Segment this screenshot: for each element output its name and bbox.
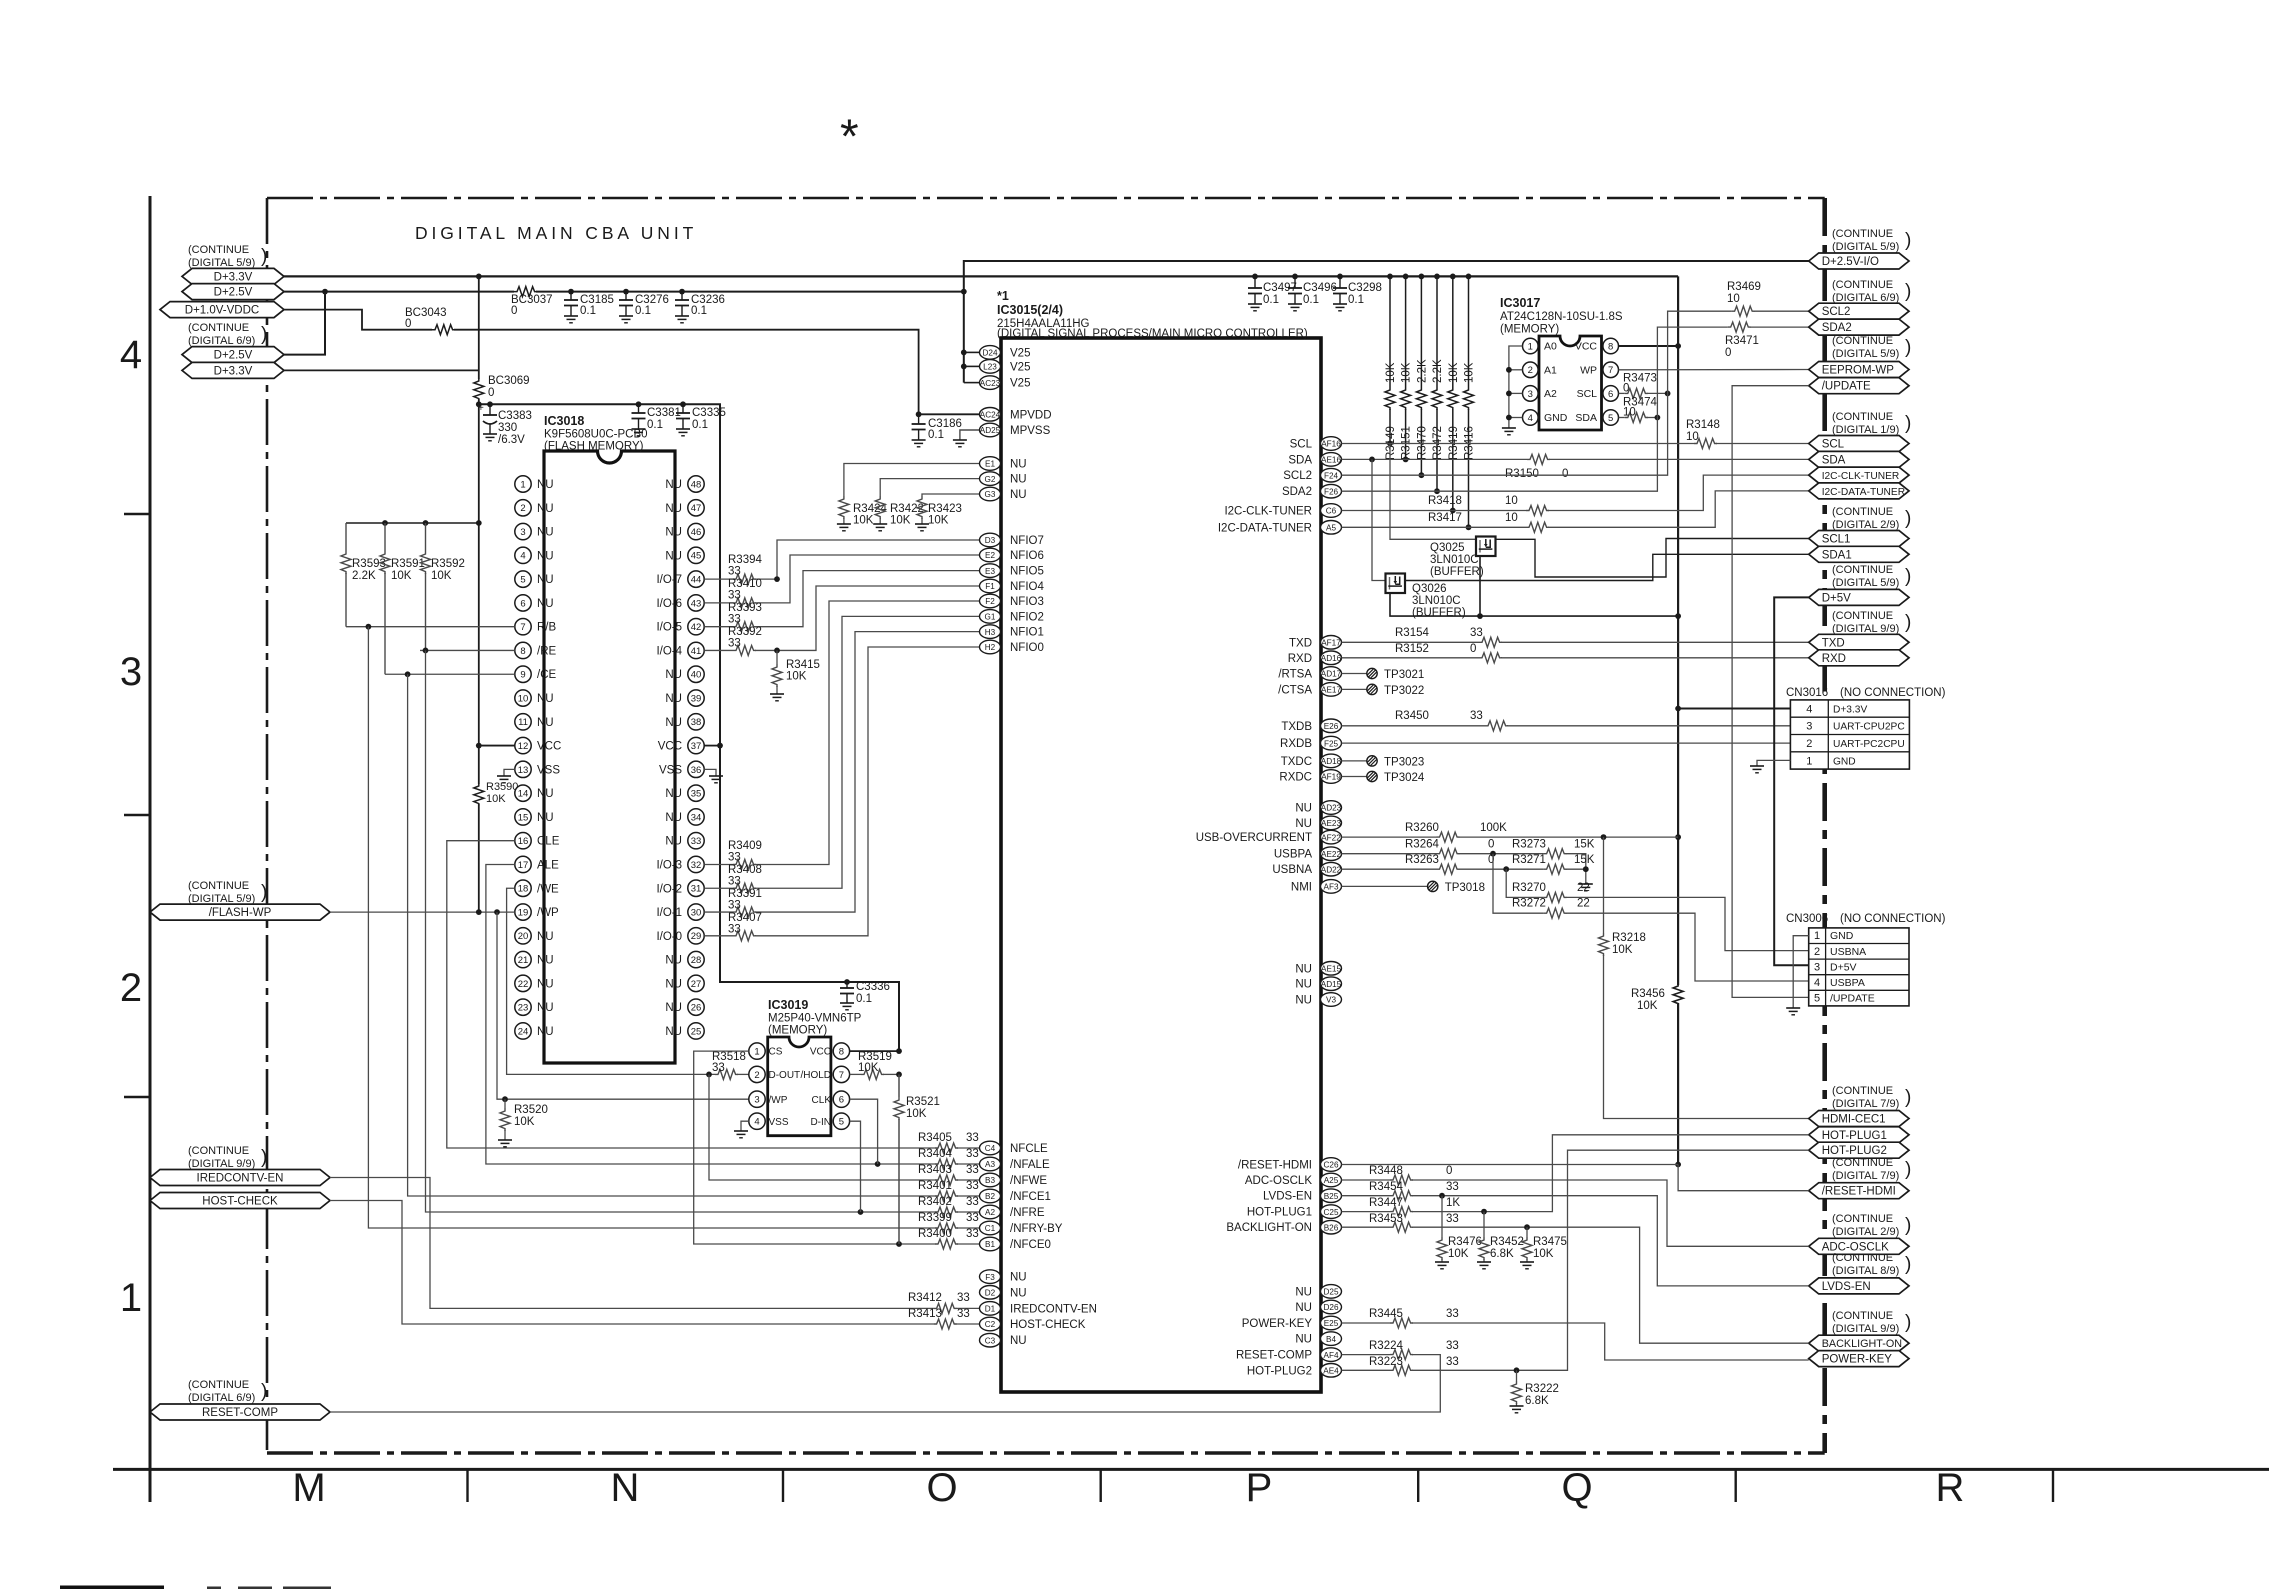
- svg-text:D3: D3: [985, 536, 996, 545]
- svg-text:B3: B3: [985, 1176, 995, 1185]
- pin F1 IC3015 NFIO4: [980, 579, 1001, 593]
- svg-text:D2: D2: [985, 1289, 996, 1298]
- svg-text:NU: NU: [537, 955, 554, 967]
- svg-text:6: 6: [1608, 389, 1613, 400]
- svg-text:AF19: AF19: [1321, 773, 1341, 782]
- junction pin12 VCC: [476, 743, 482, 749]
- svg-text:R3520: R3520: [514, 1104, 548, 1116]
- svg-text:E1: E1: [985, 460, 995, 469]
- svg-text:AD16: AD16: [1321, 654, 1342, 663]
- svg-text:19: 19: [518, 907, 529, 918]
- svg-text:C3381: C3381: [647, 407, 681, 419]
- wire D+2.5V rail: [284, 291, 514, 293]
- svg-text:M25P40-VMN6TP: M25P40-VMN6TP: [768, 1013, 862, 1025]
- svg-text:15K: 15K: [1574, 854, 1595, 866]
- svg-text:D+5V: D+5V: [1830, 961, 1857, 973]
- svg-text:(DIGITAL 5/9): (DIGITAL 5/9): [188, 257, 255, 269]
- svg-text:IREDCONTV-EN: IREDCONTV-EN: [1010, 1303, 1097, 1315]
- svg-text:5: 5: [520, 575, 525, 586]
- svg-text:10K: 10K: [1448, 1248, 1469, 1260]
- pin 27 IC3018 NU: [688, 975, 704, 991]
- svg-text:SCL: SCL: [1290, 439, 1313, 451]
- pin 4 IC3017 GND: [1523, 410, 1539, 426]
- svg-text:33: 33: [728, 590, 741, 602]
- resistor R3591 10K: [384, 523, 386, 551]
- svg-text:0: 0: [1470, 643, 1476, 655]
- pin 19 IC3018 /WP: [515, 904, 531, 920]
- svg-text:/6.3V: /6.3V: [498, 434, 525, 446]
- svg-text:5: 5: [1608, 413, 1613, 424]
- resistor R3413 33: [934, 1319, 957, 1329]
- svg-text:/WP: /WP: [537, 907, 559, 919]
- pin AE23 IC3015 NU: [1321, 816, 1342, 830]
- svg-text:NU: NU: [537, 931, 554, 943]
- svg-text:): ): [1905, 413, 1911, 434]
- wire /UPDATE vertical: [1732, 386, 1809, 998]
- svg-text:40: 40: [691, 670, 702, 681]
- svg-text:TXDB: TXDB: [1281, 721, 1312, 733]
- svg-text:R3453: R3453: [1369, 1213, 1403, 1225]
- svg-text:Q3025: Q3025: [1430, 542, 1465, 554]
- svg-text:/RE: /RE: [537, 645, 557, 657]
- svg-text:I2C-CLK-TUNER: I2C-CLK-TUNER: [1822, 471, 1900, 482]
- junction R3476: [1439, 1193, 1445, 1199]
- resistor R3404 33: [935, 1159, 958, 1169]
- pin F2 IC3015 NFIO3: [980, 594, 1001, 608]
- pin AD18 IC3015 TXDC: [1321, 754, 1342, 768]
- signal flag BACKLIGHT-ON: [1809, 1335, 1909, 1351]
- svg-text:R3405: R3405: [918, 1132, 952, 1144]
- sheet frame left line: [149, 196, 152, 1502]
- svg-text:10K: 10K: [486, 793, 506, 805]
- svg-text:NU: NU: [537, 527, 554, 539]
- wire CLK pin6 branch to /NFALE: [850, 1099, 878, 1164]
- pin 2 IC3019 D-OUT: [749, 1066, 765, 1082]
- svg-text:10K: 10K: [786, 671, 807, 683]
- svg-text:RXDB: RXDB: [1280, 738, 1312, 750]
- wire /CTSA to test point: [1342, 688, 1367, 690]
- wire POWER-KEY net: [1342, 1322, 1391, 1324]
- svg-text:10: 10: [1505, 512, 1518, 524]
- wire D+5V vertical to CN3006: [1774, 597, 1809, 965]
- svg-text:SCL2: SCL2: [1283, 470, 1312, 482]
- pin C25 IC3015 HOT-PLUG1: [1321, 1205, 1342, 1219]
- svg-text:IC3019: IC3019: [768, 998, 808, 1012]
- svg-text:R3403: R3403: [918, 1164, 952, 1176]
- schematic dash-dot border bottom: [267, 1451, 1825, 1454]
- svg-text:NU: NU: [1010, 1287, 1027, 1299]
- svg-text:(CONTINUE: (CONTINUE: [188, 1379, 249, 1391]
- svg-text:D26: D26: [1323, 1303, 1338, 1312]
- svg-text:A2: A2: [1544, 388, 1557, 400]
- svg-text:*: *: [840, 111, 859, 164]
- pin V3 IC3015 NU: [1321, 993, 1342, 1007]
- svg-text:H2: H2: [985, 643, 996, 652]
- pin 33 IC3018 NU: [688, 833, 704, 849]
- svg-text:R: R: [1936, 1466, 1965, 1510]
- svg-text:7: 7: [839, 1070, 844, 1081]
- svg-text:C3496: C3496: [1303, 282, 1337, 294]
- wire pull resistor top rail: [346, 522, 479, 524]
- svg-text:): ): [1905, 566, 1911, 587]
- pin 8 IC3017 VCC: [1603, 338, 1619, 354]
- svg-text:(CONTINUE: (CONTINUE: [1832, 335, 1893, 347]
- svg-text:SCL1: SCL1: [1822, 534, 1851, 546]
- svg-text:(BUFFER): (BUFFER): [1412, 607, 1466, 619]
- wire buffer source rail to D+3.3V: [1390, 593, 1678, 616]
- pin C4 IC3015 NFCLE: [980, 1141, 1001, 1155]
- svg-text:2.2K: 2.2K: [1432, 359, 1444, 383]
- svg-text:4: 4: [1528, 413, 1533, 424]
- svg-text:3: 3: [754, 1095, 759, 1106]
- svg-text:33: 33: [966, 1228, 979, 1240]
- wire SDA1 from Q3026: [1405, 554, 1809, 580]
- pin 8 IC3018 /RE: [515, 642, 531, 658]
- svg-text:47: 47: [691, 503, 702, 514]
- wire NFIO7 net: [704, 578, 733, 580]
- svg-text:TP3018: TP3018: [1445, 882, 1485, 894]
- svg-text:NU: NU: [1295, 1286, 1312, 1298]
- svg-text:): ): [1905, 281, 1911, 302]
- svg-text:6.8K: 6.8K: [1525, 1395, 1549, 1407]
- svg-text:AD18: AD18: [1321, 757, 1342, 766]
- svg-text:R3263: R3263: [1405, 854, 1439, 866]
- pin E3 IC3015 NFIO5: [980, 564, 1001, 578]
- wire D+1.0V-VDDC to MPVDD: [284, 310, 432, 330]
- pin 34 IC3018 NU: [688, 809, 704, 825]
- wire NFIO2 net: [704, 887, 733, 889]
- test point TP3021: [1367, 668, 1377, 678]
- svg-text:33: 33: [1470, 710, 1483, 722]
- ground pin13: [497, 775, 511, 777]
- svg-text:(CONTINUE: (CONTINUE: [1832, 228, 1893, 240]
- svg-text:R3271: R3271: [1512, 854, 1546, 866]
- svg-text:AD22: AD22: [1321, 865, 1342, 874]
- svg-text:I/O-5: I/O-5: [656, 622, 682, 634]
- svg-text:5: 5: [1814, 993, 1820, 1005]
- pin 24 IC3018 NU: [515, 1023, 531, 1039]
- pin 22 IC3018 NU: [515, 975, 531, 991]
- svg-text:/CE: /CE: [537, 669, 557, 681]
- signal flag SCL: [1809, 436, 1909, 452]
- svg-text:R3423: R3423: [928, 503, 962, 515]
- svg-text:NU: NU: [537, 788, 554, 800]
- svg-text:I2C-DATA-TUNER: I2C-DATA-TUNER: [1822, 487, 1905, 498]
- svg-text:NU: NU: [1295, 818, 1312, 830]
- svg-text:33: 33: [966, 1132, 979, 1144]
- pin 48 IC3018 NU: [688, 476, 704, 492]
- junction on D+3.3V vertical: [1675, 343, 1681, 349]
- svg-text:(DIGITAL 9/9): (DIGITAL 9/9): [188, 1158, 255, 1170]
- svg-text:/WP: /WP: [769, 1095, 788, 1106]
- pin G2 IC3015 NU: [980, 472, 1001, 486]
- wire branch to /NFWE: [709, 1074, 936, 1180]
- wire D-IN pin5 branch to /NFRE: [850, 1121, 861, 1212]
- wire IC3017 VCC pin8 to D+3.3V: [1619, 345, 1679, 347]
- svg-text:CS: CS: [769, 1047, 783, 1058]
- svg-text:VCC: VCC: [658, 741, 682, 753]
- svg-text:GND: GND: [1833, 756, 1856, 767]
- svg-text:(DIGITAL 6/9): (DIGITAL 6/9): [188, 1392, 255, 1404]
- junction on D+3.3V rail: [1403, 274, 1409, 280]
- pin 35 IC3018 NU: [688, 785, 704, 801]
- pin L23 IC3015 V25: [980, 360, 1001, 374]
- svg-text:(CONTINUE: (CONTINUE: [1832, 279, 1893, 291]
- wire CLE net to NFCLE: [447, 841, 936, 1148]
- signal flag HDMI-CEC1: [1809, 1111, 1909, 1127]
- pin AF19 IC3015 RXDC: [1321, 770, 1342, 784]
- pin 38 IC3018 NU: [688, 714, 704, 730]
- svg-text:12: 12: [518, 741, 529, 752]
- svg-text:ADC-OSCLK: ADC-OSCLK: [1245, 1175, 1312, 1187]
- svg-text:16: 16: [518, 836, 529, 847]
- wire CN3006 pin1 GND: [1793, 936, 1809, 1008]
- resistor R3402 33: [935, 1207, 958, 1217]
- resistor R3518 33: [715, 1069, 738, 1079]
- svg-text:(DIGITAL 8/9): (DIGITAL 8/9): [1832, 1265, 1899, 1277]
- svg-text:D+2.5V-I/O: D+2.5V-I/O: [1822, 256, 1879, 268]
- pin 36 IC3018 VSS: [688, 761, 704, 777]
- pin D26 IC3015 NU: [1321, 1300, 1342, 1314]
- svg-text:BC3069: BC3069: [488, 375, 530, 387]
- svg-text:R3394: R3394: [728, 554, 762, 566]
- svg-text:SDA: SDA: [1575, 412, 1597, 424]
- svg-text:HDMI-CEC1: HDMI-CEC1: [1822, 1114, 1886, 1126]
- junction 15K common: [1583, 866, 1589, 872]
- resistor R3218 10K to HDMI-CEC1: [1603, 837, 1605, 933]
- svg-text:E2: E2: [985, 551, 995, 560]
- pin AE17 IC3015 /CTSA: [1321, 683, 1342, 697]
- wire /FLASH-WP net: [330, 911, 515, 913]
- svg-text:TP3021: TP3021: [1384, 669, 1424, 681]
- svg-text:CLE: CLE: [537, 836, 560, 848]
- svg-text:2: 2: [1528, 365, 1533, 376]
- signal flag HOT-PLUG1: [1809, 1127, 1909, 1143]
- svg-text:CN3016: CN3016: [1786, 687, 1828, 699]
- pin H3 IC3015 NFIO1: [980, 625, 1001, 639]
- svg-text:1: 1: [1814, 930, 1820, 942]
- pin B1 IC3015 /NFCE0: [980, 1237, 1001, 1251]
- junction pull-up bottom: [1466, 524, 1472, 530]
- svg-text:NU: NU: [1295, 1302, 1312, 1314]
- pin G1 IC3015 NFIO2: [980, 610, 1001, 624]
- wire NFIO0 net: [704, 935, 733, 937]
- svg-text:(DIGITAL 2/9): (DIGITAL 2/9): [1832, 519, 1899, 531]
- svg-text:AE16: AE16: [1321, 456, 1341, 465]
- svg-text:/UPDATE: /UPDATE: [1830, 993, 1875, 1005]
- signal flag SDA: [1809, 451, 1909, 467]
- svg-text:0.1: 0.1: [580, 305, 596, 317]
- wire IC3018 VCC top rail: [479, 404, 899, 1051]
- ground 15K resistors: [1579, 883, 1593, 885]
- junction R3218 top: [1601, 834, 1607, 840]
- svg-text:23: 23: [518, 1003, 529, 1014]
- svg-text:26: 26: [691, 1003, 702, 1014]
- svg-text:22: 22: [1577, 882, 1590, 894]
- svg-text:NU: NU: [665, 788, 682, 800]
- svg-text:R3407: R3407: [728, 912, 762, 924]
- svg-text:UART-PC2CPU: UART-PC2CPU: [1833, 739, 1905, 750]
- svg-text:HOT-PLUG1: HOT-PLUG1: [1247, 1207, 1312, 1219]
- svg-text:(CONTINUE: (CONTINUE: [1832, 564, 1893, 576]
- svg-text:R3218: R3218: [1612, 932, 1646, 944]
- svg-text:28: 28: [691, 955, 702, 966]
- svg-text:): ): [1905, 612, 1911, 633]
- wire IC3017 WP pin7 to EEPROM-WP flag: [1619, 369, 1809, 371]
- svg-text:33: 33: [966, 1180, 979, 1192]
- wire pin37 VCC to rail: [704, 745, 720, 747]
- svg-text:/UPDATE: /UPDATE: [1822, 381, 1871, 393]
- svg-text:R3409: R3409: [728, 840, 762, 852]
- svg-text:R3450: R3450: [1395, 710, 1429, 722]
- svg-text:NFIO6: NFIO6: [1010, 550, 1044, 562]
- svg-text:(FLASH MEMORY): (FLASH MEMORY): [544, 441, 644, 453]
- pin AD17 IC3015 /RTSA: [1321, 667, 1342, 681]
- junction pin37 VCC: [717, 743, 723, 749]
- wire I2C-DATA-TUNER net: [1342, 526, 1527, 528]
- svg-text:SCL: SCL: [1577, 388, 1598, 400]
- svg-text:NU: NU: [665, 717, 682, 729]
- pin 5 IC3018 NU: [515, 571, 531, 587]
- svg-text:29: 29: [691, 931, 702, 942]
- svg-text:AC24: AC24: [980, 411, 1001, 420]
- wire BC3069 vertical (D+3.3V to IC3018 VCC rail): [478, 276, 480, 379]
- pin AE16 IC3015 SDA: [1321, 453, 1342, 467]
- svg-text:R3270: R3270: [1512, 882, 1546, 894]
- svg-text:F25: F25: [1324, 739, 1339, 748]
- svg-text:SCL2: SCL2: [1822, 306, 1851, 318]
- wire D+2.5V to second flag: [284, 292, 325, 355]
- svg-text:/RTSA: /RTSA: [1278, 669, 1312, 681]
- signal flag POWER-KEY: [1809, 1351, 1909, 1367]
- svg-text:NU: NU: [665, 978, 682, 990]
- pin 32 IC3018 I/O-3: [688, 856, 704, 872]
- svg-text:LVDS-EN: LVDS-EN: [1822, 1281, 1871, 1293]
- svg-text:33: 33: [1446, 1356, 1459, 1368]
- resistor R3222 6.8K pulldown: [1516, 1370, 1518, 1381]
- pin 25 IC3018 NU: [688, 1023, 704, 1039]
- junction D+2.5V branch: [322, 289, 328, 295]
- svg-text:(DIGITAL 7/9): (DIGITAL 7/9): [1832, 1170, 1899, 1182]
- pin A3 IC3015 /NFALE: [980, 1157, 1001, 1171]
- wire RXD net: [1342, 657, 1480, 659]
- wire pin12 VCC to rail: [479, 745, 515, 747]
- pin C3 IC3015 NU: [980, 1333, 1001, 1347]
- junction on D+3.3V rail: [1292, 274, 1298, 280]
- junction IC3019 /WP branch: [494, 909, 500, 915]
- pin 29 IC3018 I/O-0: [688, 928, 704, 944]
- svg-text:41: 41: [691, 646, 702, 657]
- pin B2 IC3015 /NFCE1: [980, 1189, 1001, 1203]
- svg-text:VSS: VSS: [659, 764, 682, 776]
- pin 2 IC3017 A1: [1523, 362, 1539, 378]
- svg-text:33: 33: [957, 1308, 970, 1320]
- svg-text:37: 37: [691, 741, 702, 752]
- svg-text:10K: 10K: [1464, 362, 1476, 383]
- pin 3 IC3018 NU: [515, 523, 531, 539]
- signal flag ADC-OSCLK: [1809, 1238, 1909, 1254]
- svg-text:R3399: R3399: [918, 1212, 952, 1224]
- svg-text:0.1: 0.1: [691, 305, 707, 317]
- svg-text:USBNA: USBNA: [1272, 864, 1312, 876]
- schematic dash-dot border top: [267, 197, 1825, 200]
- wire BACKLIGHT-ON net: [1342, 1226, 1391, 1228]
- svg-text:R3454: R3454: [1369, 1181, 1403, 1193]
- wire Q3025 gate from SCL: [1390, 444, 1476, 540]
- svg-text:NU: NU: [537, 503, 554, 515]
- svg-text:0: 0: [405, 318, 411, 330]
- svg-text:NU: NU: [1295, 995, 1312, 1007]
- svg-text:R3393: R3393: [728, 602, 762, 614]
- resistor BC3037 0 inline: [514, 287, 537, 297]
- svg-text:33: 33: [1470, 627, 1483, 639]
- pin 41 IC3018 I/O-4: [688, 642, 704, 658]
- wire D+2.5V bus to V25 pins and D+2.5V-I/O flag: [964, 261, 1809, 383]
- svg-text:21: 21: [518, 955, 529, 966]
- svg-text:F24: F24: [1324, 471, 1339, 480]
- wire NFIO1 net: [704, 911, 733, 913]
- pin AF16 IC3015 SCL: [1321, 437, 1342, 451]
- svg-text:6.8K: 6.8K: [1490, 1248, 1514, 1260]
- svg-text:NU: NU: [537, 717, 554, 729]
- junction address bus: [1506, 391, 1512, 397]
- svg-text:0.1: 0.1: [1263, 294, 1279, 306]
- pin 7 IC3019 /HOLD: [833, 1066, 849, 1082]
- svg-text:I/O-6: I/O-6: [656, 598, 682, 610]
- svg-text:CLK: CLK: [812, 1095, 832, 1106]
- pin B25 IC3015 LVDS-EN: [1321, 1189, 1342, 1203]
- svg-text:AE15: AE15: [1321, 965, 1341, 974]
- wire D+3.3V vertical to IC3017/CN3016 area: [1677, 276, 1679, 985]
- resistor R3151 10K pull-up: [1405, 276, 1407, 387]
- svg-text:F1: F1: [985, 582, 995, 591]
- svg-text:10: 10: [1623, 407, 1636, 419]
- svg-text:D24: D24: [982, 349, 997, 358]
- svg-text:D25: D25: [1323, 1288, 1338, 1297]
- svg-text:TP3022: TP3022: [1384, 685, 1424, 697]
- wire USBNA net: [1342, 868, 1437, 870]
- svg-text:NU: NU: [1010, 459, 1027, 471]
- svg-text:(DIGITAL 1/9): (DIGITAL 1/9): [1832, 424, 1899, 436]
- wire VCC vertical below IC3018: [478, 404, 480, 784]
- pin AE4 IC3015 HOT-PLUG2: [1321, 1364, 1342, 1378]
- svg-text:Q: Q: [1561, 1466, 1592, 1510]
- pin 9 IC3018 /CE: [515, 666, 531, 682]
- svg-text:R3400: R3400: [918, 1228, 952, 1240]
- svg-text:36: 36: [691, 765, 702, 776]
- svg-text:33: 33: [966, 1196, 979, 1208]
- svg-text:2.2K: 2.2K: [1416, 359, 1428, 383]
- svg-text:0.1: 0.1: [647, 419, 663, 431]
- svg-text:(CONTINUE: (CONTINUE: [188, 1145, 249, 1157]
- svg-text:10: 10: [518, 693, 529, 704]
- wire /RE net to /NFRE: [420, 649, 515, 651]
- junction on D+3.3V vertical: [1675, 834, 1681, 840]
- svg-text:C25: C25: [1323, 1208, 1338, 1217]
- capacitor C3276 0.1: [623, 289, 629, 295]
- svg-text:0.1: 0.1: [692, 419, 708, 431]
- pin 28 IC3018 NU: [688, 951, 704, 967]
- svg-text:I2C-DATA-TUNER: I2C-DATA-TUNER: [1218, 522, 1312, 534]
- junction R3452: [1481, 1209, 1487, 1215]
- wire HOST-CHECK net: [330, 1201, 934, 1325]
- svg-text:IC3018: IC3018: [544, 414, 584, 428]
- signal flag /UPDATE: [1809, 378, 1909, 394]
- svg-text:3: 3: [120, 650, 142, 694]
- svg-text:N: N: [611, 1466, 640, 1510]
- pin D2 IC3015 NU: [980, 1286, 1001, 1300]
- svg-text:L23: L23: [983, 363, 997, 372]
